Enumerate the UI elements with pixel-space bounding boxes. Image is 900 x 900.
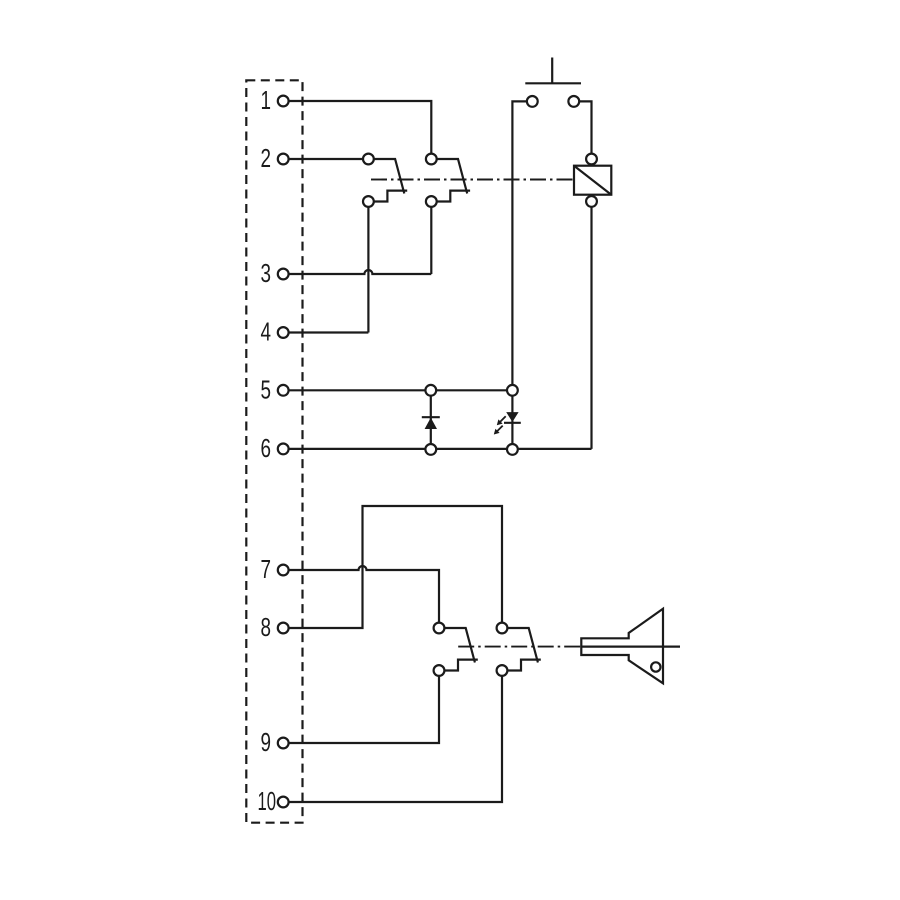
contact K1.2 common terminal [426,154,437,165]
svg-text:5: 5 [261,375,272,405]
relay coil K1 top terminal [586,154,597,165]
LED V2 triangle [506,412,518,422]
contact K2.1 blade [439,628,475,663]
pin 8 terminal [261,612,289,642]
relay coil K1 diagonal [574,166,611,195]
relay coil K1 bottom terminal [586,196,597,207]
mechanical linkage (dash-dot) contacts K2 to horn [458,646,581,648]
contact K2.1 lower terminal [434,665,445,676]
contact K2.1 common terminal [434,623,445,634]
pin 2 terminal [261,143,289,173]
horn B1 axis line [581,645,680,647]
pin 5 terminal [261,375,289,405]
LED V2 emission arrow 1 [497,416,506,425]
contact K2.2 lower fixed contact step [502,660,541,671]
wire pin 10 to contact K2.2 lower terminal [283,671,502,803]
svg-text:7: 7 [261,554,272,584]
test button S1 right contact [568,96,579,107]
contact K1.1 lower terminal [363,196,374,207]
svg-text:10: 10 [258,786,277,816]
contact K1.2 lower terminal [426,196,437,207]
wire coil K1 bottom down to pin 6 line [590,201,592,449]
svg-text:6: 6 [261,433,272,463]
wire pin 9 to contact K2.1 lower terminal [283,671,439,744]
contact K1.1 lower fixed contact step [368,191,407,202]
pin 6 terminal [261,433,289,463]
junction terminal pin6/LED V2 [507,444,518,455]
pin 9 terminal [261,727,289,757]
junction terminal pin5/diode V1 [425,385,436,396]
test button S1 left contact [527,96,538,107]
svg-text:9: 9 [261,727,272,757]
contact K2.2 lower terminal [497,665,508,676]
svg-text:4: 4 [261,317,272,347]
pin 4 terminal [261,317,289,347]
contact K2.2 common terminal [497,623,508,634]
contact K2.1 lower fixed contact step [439,660,478,671]
diode V1 cathode bar [422,416,440,418]
diode V1 branch wire [430,390,432,449]
junction terminal pin5/LED V2/node A [507,385,518,396]
pin 3 terminal [261,258,289,288]
svg-text:3: 3 [261,258,272,288]
relay coil K1 body [574,166,611,195]
svg-text:2: 2 [261,143,272,173]
svg-text:8: 8 [261,612,272,642]
contact K2.2 blade [502,628,538,663]
horn B1 mounting hole [651,662,660,671]
test button S1 stem [551,58,553,84]
contact K1.1 blade [368,159,404,194]
diode V1 triangle [425,418,437,429]
wire test button right contact to coil K1 top [579,101,592,159]
pin 10 terminal [258,786,289,816]
LED V2 branch wire [511,390,513,449]
test button S1 actuator bar [525,82,581,84]
wire pin 4 to contact K1.1 lower terminal [283,331,368,333]
wire pin 2 to contact K1.1 common [283,158,368,160]
contact K1.2 lower fixed contact step [431,191,470,202]
mechanical linkage (dash-dot) contacts to coil K1 [371,179,574,181]
pin 1 terminal [261,85,289,115]
wire node A up to test button left contact [512,101,526,390]
wire pin 3 to contact K1.2 lower terminal (hop over crossing) [283,270,431,274]
horn B1 outline [581,609,663,684]
wire pin 7 to contact K2.1 common (hop over pin 8 riser) [283,566,439,628]
connector X1 dashed outline [246,80,302,822]
wire contact K1.2 lower terminal down to pin 3 line [430,202,432,275]
wire pin 5 coil supply line [283,389,512,391]
wire pin 8 up-and-over to contact K2.2 common [283,506,502,628]
wire pin 1 to contact K1.2 common [283,101,431,159]
wire contact K1.1 lower terminal down to pin 4 line [367,202,369,333]
junction terminal pin6/diode V1 [425,444,436,455]
contact K1.2 blade [431,159,467,194]
LED V2 cathode bar [504,422,521,424]
wire pin 6 coil return line [283,448,591,450]
LED V2 emission arrow 2 [494,426,503,435]
contact K1.1 common terminal [363,154,374,165]
svg-text:1: 1 [261,85,272,115]
pin 7 terminal [261,554,289,584]
